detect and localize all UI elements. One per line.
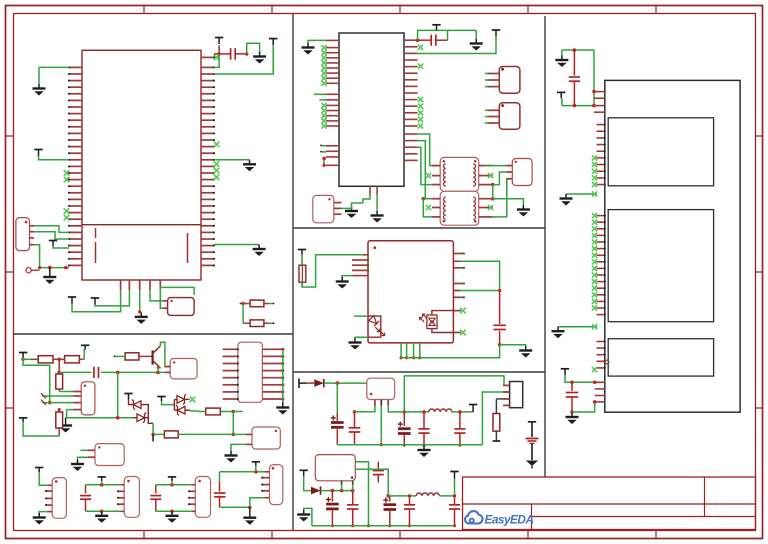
wire M1 top rail <box>562 48 594 52</box>
capacitor C19 <box>569 50 580 106</box>
U3 pin stub in <box>363 254 368 256</box>
wire U3 pin to ground left <box>342 276 368 277</box>
inductor L1 <box>429 409 452 412</box>
no-connect marks group B <box>592 213 597 311</box>
capacitor C2 <box>431 35 436 46</box>
wire stub U2 left c <box>320 145 326 147</box>
wire T to fuse <box>301 255 303 266</box>
resistor R10 <box>243 320 274 327</box>
net flag T G4 <box>252 462 260 466</box>
wire R1R2 junction down <box>58 359 60 372</box>
wire rail up right <box>482 392 509 445</box>
U3 output pins <box>453 311 461 333</box>
wire lower rail <box>66 416 133 420</box>
wire U3 mid to C3 <box>453 290 499 292</box>
wire K3 to ground <box>231 444 246 451</box>
wire U2 to T2 pri <box>418 141 426 199</box>
net flag T R1 <box>19 353 27 358</box>
wire TR2 sec3 to J3 <box>493 179 513 217</box>
wire alt path <box>23 359 50 402</box>
wire R2 to T <box>83 350 86 360</box>
wire bottom pin1 <box>72 290 121 312</box>
wire stub U2 left d <box>320 151 326 153</box>
ground right mid 1 <box>243 160 256 172</box>
ground J1 net <box>43 268 56 284</box>
IC U2 right pins <box>404 40 418 160</box>
connector J6 <box>95 444 124 466</box>
wire M1 mid ground 1 <box>566 193 597 195</box>
capacitor C12 polarized <box>383 496 396 527</box>
wire J1-2 <box>34 232 69 239</box>
pin circle M1 <box>605 360 609 364</box>
connector K3 <box>252 427 280 449</box>
no-connect U3 outputs <box>460 308 466 336</box>
no-connect mid 1 <box>592 191 597 196</box>
wire G2 top rail <box>86 483 125 487</box>
resistor R5 <box>114 353 153 360</box>
wire U6 pin3 <box>41 400 74 405</box>
transformer TR2 <box>440 191 479 225</box>
connector J8 <box>124 477 139 518</box>
wire D1 to U4 <box>324 381 367 385</box>
junction dot cap line <box>57 371 61 375</box>
wire bottom rail 2 <box>312 525 455 527</box>
wire LC rail right <box>452 410 474 414</box>
ground M1 top <box>555 56 568 68</box>
signal earth symbol <box>526 422 539 469</box>
U3 right pins <box>453 252 465 298</box>
wire U2 bottom pin1b <box>352 203 364 207</box>
optocoupler output device <box>419 311 453 333</box>
wire U4 pin2 down <box>380 406 383 447</box>
RN2 left pins <box>223 348 239 400</box>
wire C1 to ground loop <box>247 43 260 54</box>
IC U1 left pins <box>68 66 82 266</box>
net flag T M1 bottom <box>561 369 569 376</box>
wire G4 T stem <box>255 466 257 472</box>
junction dot R7 left <box>151 433 155 437</box>
transistor Q1 <box>153 346 161 369</box>
wire R4 loop <box>23 422 59 436</box>
wire U4 pin1 to C5 <box>355 406 375 412</box>
wire R7 stub down <box>152 434 154 441</box>
wire U3 to C3 top <box>453 261 499 290</box>
no-connect marks group C <box>592 367 597 372</box>
no-connect D7 <box>190 397 196 403</box>
capacitor C20 <box>566 382 578 413</box>
capacitor C1 <box>231 48 236 60</box>
capacitor C9 polarized <box>326 491 339 528</box>
wire bottom pin5 <box>160 290 163 308</box>
wire cap line right <box>101 371 165 375</box>
transformer TR1 <box>440 157 479 191</box>
ground near C1 <box>253 52 266 64</box>
net flag T J1 area <box>49 241 57 246</box>
wire T2 pri link <box>423 198 432 200</box>
wire G2 bottom rail <box>86 510 125 514</box>
connector J6 pins <box>88 450 95 457</box>
wire M1 right vertical <box>592 50 596 107</box>
ground sub2 <box>297 510 310 522</box>
wire J1-1 <box>34 226 69 233</box>
wire fuse to U3 <box>302 255 363 287</box>
wire into LED anode <box>354 315 368 317</box>
wire C4 input cap <box>336 383 338 414</box>
net flag T right of U2 <box>492 30 500 37</box>
wire to D1 <box>306 382 314 384</box>
module M1 pin group C <box>597 340 606 369</box>
wire U6 pin2 <box>41 393 74 398</box>
wire U2 pin1 to ground <box>308 40 326 43</box>
wire U6 pin4 down <box>66 410 68 418</box>
net flag T G2 <box>98 477 106 481</box>
wire U2 to T2 pri2 <box>418 147 432 184</box>
module M1 window 1 <box>608 118 713 186</box>
wire top out <box>404 376 509 412</box>
IC U3 body <box>368 241 453 343</box>
ground TR secondary <box>517 205 530 217</box>
transformer TR2 left pins <box>432 199 440 217</box>
U3 left pins <box>352 259 369 272</box>
zener diode D5 <box>132 400 141 410</box>
zener diode D7 <box>177 394 186 404</box>
ground right of C2 <box>470 30 483 50</box>
ground K3 <box>225 451 238 463</box>
junction dot U2 cap left <box>416 38 420 42</box>
connector J3 <box>512 159 532 186</box>
resistor R2 <box>59 356 84 363</box>
ground U2 top-left <box>302 43 315 55</box>
capacitor C11 <box>373 462 384 483</box>
ground J6 <box>71 460 84 472</box>
wire C1 to U1 pin2 <box>214 54 219 68</box>
junction dot R1-R2 <box>57 358 61 362</box>
resistor R3 <box>56 374 63 392</box>
net flag T U5 left <box>300 470 308 476</box>
connector J4 <box>499 67 520 94</box>
junction dot LC rail left <box>403 410 407 414</box>
capacitor C13 <box>404 496 415 527</box>
net flag T G3 <box>168 477 176 481</box>
no-connect marks U2 left <box>321 45 326 129</box>
wire stub U2 left e <box>322 157 326 167</box>
wire RN2 common rail <box>282 349 284 402</box>
capacitor C16 <box>80 485 91 512</box>
net flag T zener pair 2 <box>157 397 165 402</box>
wire U6 pin1 <box>59 391 73 393</box>
net flag T LC1 <box>469 405 477 412</box>
wire U6 pin4 <box>67 409 74 411</box>
net flag T R2 <box>81 345 89 350</box>
junction dot R9 <box>241 302 245 306</box>
wire U2 bottom pin2 to ground <box>376 195 378 211</box>
U3 bottom pins <box>400 343 422 360</box>
section divider horizontal mid-top <box>293 227 545 229</box>
wire U4 pin3 to LC rail <box>388 406 404 412</box>
wire stub U2 left a <box>314 93 326 95</box>
RN1 pins <box>163 301 168 308</box>
wire C3 to ground <box>500 345 526 346</box>
ground LC1 <box>418 446 431 458</box>
EasyEDA logo <box>465 511 533 526</box>
connector J1 pins <box>30 226 35 245</box>
input port stub 1 <box>299 379 306 389</box>
ground J7 <box>33 513 46 525</box>
wire R9-R10 link <box>242 304 244 324</box>
connector J2 pins <box>334 203 342 215</box>
no-connect marks U1 left <box>64 170 70 220</box>
wire T2 to U1 pin3 <box>214 45 273 74</box>
IC U2 body <box>339 33 404 186</box>
wire T to U1 pin <box>53 246 69 249</box>
section divider vertical right <box>544 16 546 478</box>
wire T to J7 pin1 <box>39 472 52 485</box>
regulator U4 <box>367 378 395 399</box>
ground G2 <box>95 511 108 523</box>
module M1 top pins <box>594 92 605 113</box>
capacitor C10 <box>347 491 359 528</box>
U5 pin drops <box>342 481 353 491</box>
net flag T above C2 <box>432 25 440 30</box>
wire bottom pin3 to ground <box>138 290 141 313</box>
no-connect mid 2 <box>592 324 597 329</box>
wire M1 mid ground 2 <box>558 326 597 328</box>
wire R9 input stub <box>240 303 244 305</box>
capacitor C18 <box>214 472 225 508</box>
net flag T G1 <box>35 468 43 473</box>
wire cap line left <box>59 371 91 373</box>
capacitor C17 <box>150 485 161 512</box>
connector J2 <box>313 195 334 222</box>
capacitor C7 <box>418 412 429 447</box>
wire G4 to pin5 <box>250 498 270 508</box>
module M1 pin group A <box>597 124 606 186</box>
no-connect marks group A <box>592 155 597 187</box>
wire Q1 emitter <box>158 368 161 372</box>
wire J6 pin2 to ground <box>78 457 89 459</box>
ground top-left <box>33 84 46 96</box>
wire bottom pin4 <box>150 290 163 301</box>
connector J5 pins <box>485 110 499 123</box>
ground below U2 a <box>345 207 358 219</box>
transformer TR2 right pins <box>479 199 493 217</box>
connector K1 pins <box>503 385 510 405</box>
resistor R6 <box>206 408 221 415</box>
wire J3 pin2 <box>493 172 507 185</box>
wire LC rail 2 right <box>439 479 456 498</box>
connector J7 <box>52 478 66 519</box>
connector K3 pins <box>246 434 252 444</box>
wire T to zener pair 2 <box>162 401 175 405</box>
module M1 bottom pins <box>595 382 605 402</box>
ground C3 <box>519 346 532 358</box>
wire G3 T stem <box>171 481 173 485</box>
module M1 body <box>605 80 740 412</box>
wire C1 left <box>214 45 230 54</box>
wire U1 right pin to ground 1 <box>214 159 250 161</box>
IC U2 bottom pins <box>370 186 377 195</box>
junction dot C1 left <box>217 52 221 56</box>
wire U1 right pin to ground 2 <box>214 244 259 246</box>
IC U2 left pins <box>326 40 339 165</box>
zener diode D6 <box>133 413 148 423</box>
wire U2 to T1 pri <box>418 134 441 166</box>
connector J10 <box>270 465 283 505</box>
wire U2 bottom pin1 to ground <box>363 195 370 203</box>
ground below U1 <box>135 312 148 324</box>
module M1 window 3 <box>608 339 713 376</box>
no-connect marks U1 right <box>214 55 220 180</box>
junction dot T2 pri <box>422 197 426 201</box>
module M1 window 2 <box>608 210 713 322</box>
ground G3 <box>166 511 179 523</box>
ground G4 <box>243 507 256 524</box>
connector J4 pins <box>485 74 499 87</box>
capacitor C8 <box>454 412 465 447</box>
zener diode D8 <box>176 405 185 415</box>
wire J7 pin5 to ground <box>39 512 52 513</box>
module M1 pin group B <box>597 215 606 316</box>
connector J5 <box>499 103 520 130</box>
wire G4 bottom rail <box>220 506 252 510</box>
J9 short pins <box>188 490 195 505</box>
wire C1 right <box>236 53 247 55</box>
wire U5 out top <box>355 462 370 528</box>
ground below U2 b <box>371 211 384 223</box>
RN2 right pins <box>262 348 284 401</box>
circle test point <box>26 266 41 273</box>
wire zener pair 1 out <box>148 418 153 435</box>
diode D1 <box>314 379 324 387</box>
wire G3 top rail <box>156 483 196 487</box>
wire T to D2 <box>304 476 311 491</box>
net flag T above C1 <box>215 38 223 45</box>
connector J7 short pins <box>45 490 52 506</box>
wire C2 to ground <box>448 29 477 31</box>
regulator U5 <box>315 455 355 481</box>
ground M1 mid 2 <box>552 327 565 339</box>
wire U3 bottom rail <box>401 345 500 358</box>
no-connect TR1 pins <box>426 173 493 178</box>
wire T to zener D5 <box>129 399 134 405</box>
ground RN2 <box>276 402 289 414</box>
wire through C2 <box>418 39 448 41</box>
net flag T bottom 1 <box>68 297 76 304</box>
wire R6 right <box>199 410 243 414</box>
optocoupler LED <box>368 316 385 338</box>
junction dot TR sec b <box>491 197 495 201</box>
resistor R7 <box>153 431 233 438</box>
transformer TR1 right pins <box>479 166 493 185</box>
resistor R8 <box>493 399 501 441</box>
junction dot C3 bottom <box>498 343 502 347</box>
wire D7 out <box>185 398 190 400</box>
inductor L2 <box>416 493 439 496</box>
wire LC rail <box>404 410 428 414</box>
relay K2 <box>170 359 197 379</box>
connector K1 <box>510 382 523 408</box>
wire T2 pri3 <box>423 199 432 217</box>
net flag T fuse <box>298 250 306 255</box>
junction dot C3 top <box>498 289 502 293</box>
wire stub U2 left b <box>319 99 326 101</box>
no-connect TR2 pins <box>426 205 493 210</box>
section divider horizontal left <box>14 333 294 335</box>
IC U1 bottom pins <box>121 280 161 290</box>
wire G2 T stem <box>101 481 103 485</box>
wire zener link 2 <box>174 399 177 410</box>
svg-text:EasyEDA: EasyEDA <box>485 513 534 527</box>
wire U5 out 2 <box>355 469 388 496</box>
wire zener link 1 <box>141 405 148 418</box>
junction dot TR sec a <box>491 183 495 187</box>
U6 pins <box>74 392 82 410</box>
no-connect marks U2 right <box>418 45 423 129</box>
junction dot R1 <box>21 358 25 362</box>
connector J1 <box>16 218 30 251</box>
wire D2 to drops <box>321 489 355 493</box>
wire T down <box>565 375 597 384</box>
diode D2 <box>311 486 321 494</box>
wire J6 pin1 <box>80 449 88 451</box>
wire M1 bottom rail <box>562 104 594 108</box>
ground right mid 2 <box>253 245 266 257</box>
resistor network RN1 <box>168 298 195 316</box>
net flag T zener pair 1 <box>124 394 132 400</box>
wire T to U2 pin3 <box>418 37 496 54</box>
section divider horizontal mid-bottom <box>293 371 545 373</box>
junction dot alt path <box>48 401 52 405</box>
resistor R1 <box>31 356 60 363</box>
resistor network RN2 <box>238 342 263 402</box>
net flag T left <box>34 150 42 157</box>
wire R7 to K3 <box>233 433 246 435</box>
net flag T R4 <box>19 418 27 422</box>
ground U3 left <box>336 277 349 289</box>
ground M1 bottom <box>566 413 579 425</box>
capacitor C15 <box>94 367 99 378</box>
IC U1 right pins <box>201 56 215 266</box>
capacitor C5 <box>349 410 361 445</box>
transformer TR1 left pins <box>432 166 440 185</box>
wire rail to ground 2 <box>304 508 312 525</box>
junction dot out2 <box>386 494 390 498</box>
relay K2 pins <box>165 367 170 373</box>
net flag T right <box>269 39 277 46</box>
wire T to U1 left pin <box>39 156 70 160</box>
wire TR sec to ground <box>493 199 524 205</box>
wire T-R1 <box>23 358 31 360</box>
optocoupler U6 <box>81 382 95 415</box>
wire RN1 top <box>160 287 194 295</box>
wire cap branch down <box>117 372 119 417</box>
section divider vertical left <box>292 14 294 531</box>
capacitor C3 <box>493 291 505 345</box>
wire D8 to R6 <box>185 409 199 412</box>
wire R6 down <box>232 412 236 437</box>
wire TR sec link <box>492 185 494 199</box>
J8 short pins <box>117 490 124 505</box>
capacitor C14 <box>449 496 460 527</box>
U4 pin drops <box>375 400 388 407</box>
wire bottom pin2 <box>95 290 129 306</box>
wire M1 top rail left down <box>561 50 563 56</box>
capacitor C4 polarized <box>331 413 344 445</box>
net flag T M1 <box>557 92 565 98</box>
ground U3 LED <box>349 338 362 350</box>
connector J3 pins <box>507 166 513 179</box>
connector J10 short pins <box>261 477 269 492</box>
